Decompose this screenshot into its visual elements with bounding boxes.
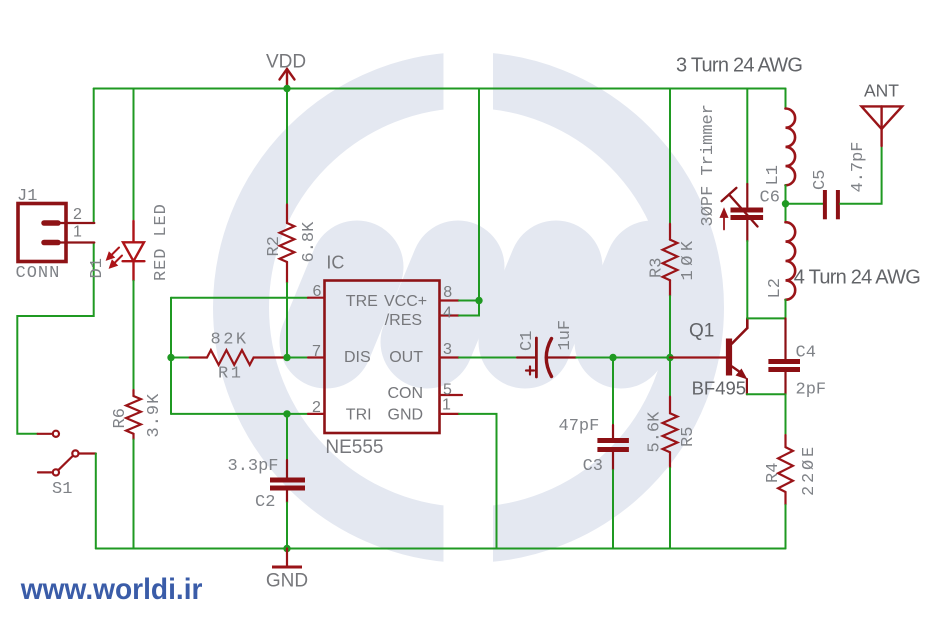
svg-text:C3: C3 <box>583 457 603 476</box>
svg-text:DIS: DIS <box>344 349 371 366</box>
resistor R2 <box>280 205 295 284</box>
wire tap to C5 <box>786 203 824 205</box>
svg-text:R4: R4 <box>764 463 783 483</box>
resistor R6 <box>126 390 141 440</box>
svg-text:3ØPF Trimmer: 3ØPF Trimmer <box>699 104 718 226</box>
junction C3 node <box>609 354 616 361</box>
svg-text:22ØE: 22ØE <box>800 444 819 496</box>
wire R6 to bottom rail <box>133 440 135 549</box>
wire C2 to bottom rail <box>286 503 288 549</box>
svg-text:VDD: VDD <box>266 52 306 73</box>
svg-text:R6: R6 <box>111 408 130 428</box>
watermark logo ring <box>241 40 696 576</box>
capacitor C1 polarized <box>517 338 576 377</box>
svg-text:C2: C2 <box>255 493 275 512</box>
svg-text:BF495: BF495 <box>692 378 747 399</box>
svg-text:7: 7 <box>312 343 321 360</box>
wire pin3 OUT to C1 <box>459 357 517 359</box>
svg-text:TRE: TRE <box>346 293 378 310</box>
svg-text:4.7pF: 4.7pF <box>849 141 868 192</box>
wire C5 to antenna <box>840 146 882 204</box>
IC pin 8 stub <box>440 299 460 301</box>
wire trimmer to collector rail <box>746 241 748 318</box>
svg-text:IC: IC <box>326 253 344 273</box>
svg-text:47pF: 47pF <box>559 417 600 436</box>
capacitor C2 <box>270 460 305 503</box>
svg-text:5.6K: 5.6K <box>646 411 665 453</box>
wire base node to Q1 <box>670 356 726 358</box>
junction pin8/4 node <box>475 297 482 304</box>
resistor R1 82K <box>190 350 287 365</box>
trimmer adjust arrow <box>721 210 727 230</box>
svg-text:4 Turn 24 AWG: 4 Turn 24 AWG <box>794 267 920 289</box>
antenna ANT <box>862 106 903 146</box>
resistor R5 <box>663 397 678 468</box>
IC pin 1 stub <box>440 413 460 415</box>
wire collector rail <box>747 317 785 319</box>
wire pin1 to drop <box>459 414 497 549</box>
wire bottom GND rail <box>96 548 786 550</box>
svg-text:3 Turn 24 AWG: 3 Turn 24 AWG <box>676 55 802 77</box>
svg-text:C1: C1 <box>518 331 537 351</box>
watermark w glyph <box>326 267 652 342</box>
wire R5 to bottom rail <box>669 468 671 549</box>
svg-text:Q1: Q1 <box>689 321 714 342</box>
svg-text:R2: R2 <box>265 236 284 256</box>
junction base node <box>666 354 673 361</box>
svg-text:NE555: NE555 <box>325 437 383 458</box>
wire pin8 to node <box>459 300 479 302</box>
svg-text:2pF: 2pF <box>796 381 827 400</box>
svg-text:2: 2 <box>73 206 82 223</box>
svg-text:1: 1 <box>442 397 451 414</box>
wire DIS node to pin7 <box>287 357 308 359</box>
svg-text:RED LED: RED LED <box>152 203 171 281</box>
svg-text:S1: S1 <box>52 480 72 499</box>
svg-text:J1: J1 <box>17 187 37 206</box>
junction DIS node <box>283 354 290 361</box>
junction bottom rail GND node <box>283 545 290 552</box>
wire to pin2 TRI <box>171 413 308 415</box>
wire C3 node to base node <box>613 357 670 359</box>
svg-text:GND: GND <box>266 571 308 592</box>
wire C3 to bottom rail <box>612 470 614 549</box>
wire TRI node to C2 <box>286 414 288 460</box>
switch S1 <box>38 431 96 476</box>
VDD symbol <box>280 69 295 89</box>
IC pin 3 stub <box>440 356 460 358</box>
svg-text:R1: R1 <box>218 365 243 384</box>
wire VDD to R2 <box>286 89 288 205</box>
wire R3 to base node <box>669 296 671 358</box>
wire S1 to bottom rail <box>95 454 97 549</box>
svg-text:3.9K: 3.9K <box>145 393 164 438</box>
capacitor C4 <box>768 318 800 394</box>
svg-text:L1: L1 <box>764 165 783 185</box>
svg-text:R5: R5 <box>679 427 698 447</box>
wire LED branch upper <box>133 89 135 222</box>
resistor R3 <box>663 224 678 296</box>
resistor R4 <box>778 435 793 505</box>
wire pin4 elbow <box>459 301 479 316</box>
wire R2 to DIS node <box>286 283 288 358</box>
wire J1 pin1 drop <box>17 243 93 434</box>
wire R4 to bottom rail <box>785 505 787 549</box>
svg-text:R3: R3 <box>648 258 667 278</box>
svg-text:C4: C4 <box>796 344 816 363</box>
svg-text:CON: CON <box>388 385 424 402</box>
wire trimmer branch top <box>746 89 748 185</box>
svg-text:3: 3 <box>443 341 452 358</box>
svg-text:C5: C5 <box>811 170 830 190</box>
junction R1 node <box>167 354 174 361</box>
svg-text:4: 4 <box>443 305 452 322</box>
svg-text:D1: D1 <box>88 258 107 278</box>
trimmer capacitor C6 <box>722 184 764 241</box>
svg-text:GND: GND <box>388 407 424 424</box>
IC pin 2 stub <box>308 413 325 415</box>
wire L1 to tap node <box>785 185 787 222</box>
wire C3 branch <box>612 358 614 426</box>
svg-text:1: 1 <box>73 224 82 241</box>
LED D1 <box>123 221 145 281</box>
svg-text:ANT: ANT <box>864 81 899 101</box>
wire emitter down <box>747 379 786 394</box>
wire left drop to J1 pin2 <box>93 89 95 224</box>
svg-text:L2: L2 <box>766 278 785 298</box>
wire to pin6 TRE <box>171 297 308 299</box>
svg-text:OUT: OUT <box>389 349 423 366</box>
LED D1 arrows <box>107 248 122 268</box>
junction TRI node <box>283 410 290 417</box>
wire R1 node vertical <box>170 298 172 414</box>
wire emitter node to R4 <box>785 394 787 435</box>
svg-text:/RES: /RES <box>385 312 422 329</box>
wire L1 top <box>785 89 787 109</box>
IC pin 4 stub <box>440 314 460 316</box>
svg-text:3.3pF: 3.3pF <box>228 457 279 476</box>
svg-text:1uF: 1uF <box>556 320 575 351</box>
inductor L2 <box>786 222 796 300</box>
svg-text:www.worldi.ir: www.worldi.ir <box>20 573 203 606</box>
junction tap node <box>782 200 789 207</box>
junction VDD node <box>283 85 290 92</box>
transistor Q1 <box>729 318 748 379</box>
svg-text:6: 6 <box>313 283 322 300</box>
wire top VDD rail <box>94 88 786 90</box>
ground symbol <box>272 549 302 568</box>
svg-text:2: 2 <box>312 399 321 416</box>
IC pin 7 stub <box>308 356 325 358</box>
svg-text:1ØK: 1ØK <box>679 236 698 280</box>
wire R3 branch top <box>669 89 671 224</box>
svg-text:6.8K: 6.8K <box>300 221 319 263</box>
IC pin 6 stub <box>308 297 325 299</box>
svg-text:VCC+: VCC+ <box>384 293 427 310</box>
IC pin 5 stub <box>440 394 463 396</box>
op IC NE555 box <box>325 281 440 434</box>
wire C1 to C3 node <box>576 357 613 359</box>
inductor L1 <box>786 109 796 186</box>
wire LED to R6 <box>133 281 135 390</box>
svg-text:8: 8 <box>443 284 452 301</box>
svg-text:CONN: CONN <box>16 264 61 283</box>
capacitor C3 <box>597 425 629 470</box>
wire R1 node to resistor <box>171 357 190 359</box>
svg-text:TRI: TRI <box>346 407 372 424</box>
connector J1 <box>18 204 94 262</box>
capacitor C5 <box>825 190 838 219</box>
wire base node to R5 <box>669 358 671 397</box>
wire node up to VDD rail <box>478 89 480 301</box>
wire L2 bottom to collector rail <box>785 300 787 319</box>
svg-text:82K: 82K <box>211 331 249 350</box>
svg-text:C6: C6 <box>760 189 780 208</box>
